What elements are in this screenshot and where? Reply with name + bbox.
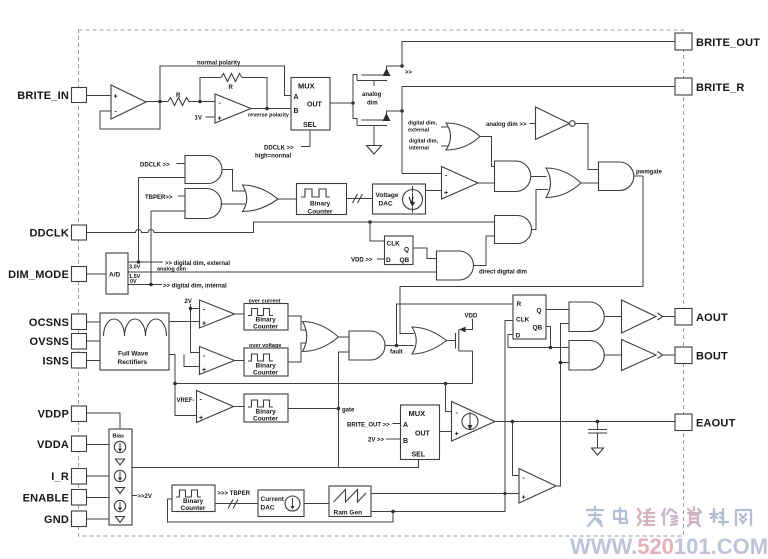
wire FF1 clock tap: [370, 222, 385, 241]
wire counter feedback loop: [168, 499, 394, 522]
comparator U20 over current: [200, 300, 245, 328]
svg-text:>> digital dim, internal: >> digital dim, internal: [163, 284, 227, 290]
svg-text:QB: QB: [400, 257, 410, 264]
svg-text:OCSNS: OCSNS: [29, 317, 69, 329]
net analog dim mid: [129, 274, 141, 280]
svg-text:OUT: OUT: [307, 102, 323, 109]
binary counter U17: [297, 184, 347, 216]
buffer U32 A driver: [622, 300, 676, 333]
wire U13 Q out: [413, 248, 437, 259]
svg-text:QB: QB: [533, 325, 543, 332]
transistor Q2 analog dim low: [353, 92, 402, 126]
svg-text:analog: analog: [362, 92, 382, 98]
svg-text:direct digital dim: direct digital dim: [479, 270, 527, 276]
svg-text:Full Wave: Full Wave: [118, 351, 148, 358]
svg-text:Ram Gen: Ram Gen: [334, 510, 363, 517]
wire PWM comparator out riser: [556, 324, 569, 487]
svg-text:+: +: [202, 321, 206, 328]
svg-text:VDD >>: VDD >>: [351, 258, 373, 264]
net 2V to mux B: [368, 438, 401, 444]
net digital dim external: [128, 260, 230, 270]
wire fault to FF2 reset: [397, 304, 514, 346]
svg-text:analog dim: analog dim: [157, 267, 186, 273]
svg-text:Rectifiers: Rectifiers: [118, 359, 148, 366]
svg-text:BRITE_R: BRITE_R: [696, 82, 744, 94]
and gate U11: [495, 190, 549, 244]
net BRITE_OUT sense: [347, 423, 401, 429]
svg-text:external: external: [408, 128, 430, 134]
svg-text:D: D: [386, 257, 391, 264]
svg-text:TBPER>>: TBPER>>: [145, 195, 173, 201]
net VREF: [177, 398, 195, 404]
and gate U31 B phase: [569, 341, 622, 371]
svg-text:Current: Current: [261, 496, 285, 503]
svg-text:gate: gate: [342, 408, 355, 414]
resistor R2 feedback: [200, 74, 267, 109]
wire U5 out to AND4: [576, 124, 599, 170]
ramp generator U40: [329, 486, 371, 517]
svg-text:digital dim,: digital dim,: [409, 139, 439, 145]
svg-text:Counter: Counter: [181, 505, 206, 512]
net digital dim internal: [128, 279, 227, 290]
or gate U26 gate drive: [412, 327, 456, 354]
svg-text:CLK: CLK: [516, 317, 530, 324]
svg-text:>>: >>: [405, 70, 413, 76]
wire EAOUT to PWM comparator: [513, 422, 520, 476]
comparator U6 analog dim: [442, 167, 495, 200]
wire EAOUT rail: [495, 420, 675, 424]
svg-text:2V >>: 2V >>: [368, 438, 385, 444]
svg-text:3.0V: 3.0V: [129, 265, 141, 271]
svg-text:>> digital dim, external: >> digital dim, external: [165, 261, 230, 267]
wire FF2 Q out: [546, 309, 569, 311]
svg-text:Binary: Binary: [256, 317, 277, 324]
svg-text:+: +: [455, 431, 459, 438]
svg-text:+: +: [199, 415, 203, 422]
comparator U27 VREF: [197, 391, 245, 423]
pin OCSNS: [29, 314, 100, 330]
net TBPER broadcast: [218, 491, 251, 497]
comparator U36 PWM: [519, 469, 556, 504]
node U2 output: [248, 107, 291, 119]
error amp U35: [452, 402, 496, 442]
pin BRITE_IN: [17, 88, 111, 103]
and gate U30 A phase: [569, 302, 622, 332]
binary counter U22 over current: [244, 299, 288, 331]
svg-text:>>> TBPER: >>> TBPER: [218, 491, 251, 497]
svg-text:+: +: [444, 190, 448, 197]
full wave rectifiers U19: [100, 313, 200, 370]
svg-text:DAC: DAC: [261, 505, 275, 512]
svg-text:B: B: [294, 108, 299, 115]
and gate U8: [495, 161, 547, 192]
svg-text:DDCLK >>: DDCLK >>: [264, 146, 294, 152]
svg-text:Counter: Counter: [253, 416, 278, 423]
transistor Q1 analog dim high: [353, 66, 402, 86]
pin BRITE_OUT: [675, 33, 760, 50]
wire U4 out to AND3: [480, 137, 495, 167]
node mux out to dim gates: [330, 74, 355, 119]
svg-text:VREF-: VREF-: [177, 398, 195, 404]
ground below Q2: [367, 126, 382, 155]
svg-text:reverse polarity: reverse polarity: [248, 113, 290, 119]
svg-text:VDD: VDD: [465, 314, 478, 320]
inverter U5 analog dim: [486, 107, 575, 140]
pin OVSNS: [29, 334, 100, 350]
binary counter U38 TBPER: [172, 485, 215, 512]
watermark: [570, 507, 768, 559]
pin DDCLK: [30, 225, 87, 240]
pin VDDA: [37, 436, 109, 452]
svg-text:WWW.520101.COM: WWW.520101.COM: [570, 534, 768, 559]
mux U3 polarity select: [291, 78, 330, 131]
svg-text:R: R: [229, 85, 234, 91]
svg-text:+: +: [522, 495, 526, 502]
net 1V reference: [195, 116, 216, 122]
and gate U15 TBPER: [145, 189, 245, 285]
binary counter U28: [244, 394, 339, 423]
svg-text:I_R: I_R: [51, 471, 69, 483]
wire U22 out: [288, 316, 306, 330]
svg-text:B: B: [403, 438, 408, 445]
pin BRITE_R: [675, 78, 744, 95]
pin DIM_MODE: [8, 267, 106, 282]
svg-text:analog dim >>: analog dim >>: [486, 122, 527, 128]
pin GND: [44, 511, 109, 527]
svg-text:Binary: Binary: [256, 409, 277, 416]
wire error amp inverting feed: [446, 384, 452, 412]
net 2V threshold: [185, 299, 200, 353]
resistor R1: [168, 93, 215, 106]
svg-text:DDCLK: DDCLK: [30, 228, 70, 240]
wire gate net to MUX SEL: [132, 409, 419, 468]
svg-text:ISNS: ISNS: [43, 356, 69, 368]
svg-text:R: R: [517, 301, 522, 308]
svg-text:normal polarity: normal polarity: [197, 61, 241, 67]
svg-text:BRITE_OUT >>: BRITE_OUT >>: [347, 423, 390, 429]
svg-text:+: +: [114, 94, 118, 101]
comparator U21 over voltage: [200, 347, 245, 375]
svg-text:AOUT: AOUT: [696, 312, 728, 324]
capacitor C1: [588, 422, 607, 449]
pin VDDP: [38, 406, 120, 429]
wire mux out: [440, 431, 452, 433]
svg-text:pwmgate: pwmgate: [636, 170, 663, 176]
svg-text:D: D: [516, 333, 521, 340]
svg-text:digital dim,: digital dim,: [408, 121, 438, 127]
svg-text:+: +: [202, 367, 206, 374]
bias block U37: [109, 429, 132, 525]
wire U3 select: [255, 130, 310, 160]
or gate U9: [546, 168, 599, 198]
ground below C1: [592, 448, 604, 455]
svg-text:MUX: MUX: [409, 409, 426, 418]
svg-text:Counter: Counter: [253, 324, 278, 331]
svg-text:MUX: MUX: [298, 82, 315, 91]
node buffer output: [146, 100, 168, 104]
svg-text:0V: 0V: [130, 279, 137, 285]
flip-flop U13: [385, 236, 414, 265]
wire normal polarity: [160, 61, 291, 102]
svg-text:ENABLE: ENABLE: [23, 493, 69, 505]
svg-text:BRITE_OUT: BRITE_OUT: [696, 37, 760, 49]
svg-text:Counter: Counter: [308, 209, 333, 216]
bus slash to current DAC: [215, 500, 258, 509]
svg-text:>>2V: >>2V: [138, 494, 152, 500]
svg-text:DDCLK >>: DDCLK >>: [140, 163, 170, 169]
current DAC U39: [258, 490, 329, 517]
pin ENABLE: [23, 490, 109, 506]
wire U14 out: [222, 170, 245, 192]
a/d converter U18: [106, 253, 128, 294]
svg-text:V: V: [409, 196, 415, 205]
and gate U10 pwmgate: [599, 162, 663, 191]
wire DDCLK rail: [87, 220, 495, 232]
wire BRITE_OUT rail: [400, 42, 675, 77]
svg-text:VDDP: VDDP: [38, 409, 69, 421]
svg-text:+: +: [218, 116, 222, 123]
pin EAOUT: [675, 414, 736, 431]
voltage DAC U7: [373, 184, 442, 214]
wire ramp to FF2 clock: [505, 321, 513, 494]
or gate U4 digital dim combine: [408, 121, 480, 152]
svg-text:GND: GND: [44, 514, 69, 526]
svg-text:OVSNS: OVSNS: [29, 336, 69, 348]
bus slash to voltage DAC: [347, 194, 373, 203]
binary counter U23 over voltage: [244, 343, 288, 377]
svg-text:SEL: SEL: [412, 452, 426, 459]
mux U34 error amp source: [401, 405, 440, 460]
wire ramp rail: [371, 492, 519, 495]
svg-text:EAOUT: EAOUT: [696, 418, 736, 430]
flip-flop U29 phase splitter: [513, 295, 546, 340]
svg-text:OUT: OUT: [415, 431, 431, 438]
transistor Q3 fault pull: [456, 314, 478, 384]
svg-text:A: A: [294, 94, 299, 101]
pin BOUT: [675, 347, 728, 364]
svg-text:A/D: A/D: [109, 272, 121, 279]
svg-text:Counter: Counter: [253, 370, 278, 377]
op-amp U1 input buffer: [100, 85, 160, 129]
pin I_R: [51, 469, 109, 485]
svg-text:Binary: Binary: [256, 363, 277, 370]
op-amp U2 inverting: [215, 94, 251, 123]
svg-text:A: A: [403, 422, 408, 429]
and gate U14 DDCLK: [139, 156, 223, 263]
net 2V bias out: [132, 494, 152, 500]
svg-text:Voltage: Voltage: [376, 192, 399, 199]
svg-text:Q: Q: [537, 308, 542, 315]
svg-text:Binary: Binary: [183, 498, 204, 505]
wire pwmgate return path: [400, 176, 643, 334]
svg-text:dim: dim: [367, 101, 378, 107]
buffer U33 B driver: [622, 340, 676, 371]
pin AOUT: [675, 309, 728, 326]
svg-text:high=normal: high=normal: [255, 154, 292, 160]
wire BRITE_R sense drop to comparator: [402, 111, 442, 174]
wire ISNS full-wave rail: [169, 355, 473, 416]
svg-text:1V: 1V: [195, 116, 202, 122]
svg-text:VDDA: VDDA: [37, 439, 69, 451]
or gate U24 fault combine: [303, 322, 350, 352]
wire BRITE_R rail: [400, 87, 675, 113]
wire ramp lower rail: [371, 494, 505, 514]
wire gate net to fault AND: [337, 352, 355, 414]
net VDD to D: [351, 258, 385, 264]
svg-text:SEL: SEL: [303, 122, 317, 129]
svg-text:R: R: [176, 93, 181, 99]
wire analog dim level rail: [128, 267, 437, 273]
svg-text:fault: fault: [390, 350, 403, 356]
svg-text:DAC: DAC: [379, 201, 393, 208]
wire FF2 QB loop: [508, 327, 569, 350]
svg-text:BOUT: BOUT: [696, 351, 728, 363]
svg-text:Binary: Binary: [310, 201, 331, 208]
svg-text:Q: Q: [404, 247, 409, 254]
pin ISNS: [43, 353, 100, 369]
svg-text:DIM_MODE: DIM_MODE: [8, 269, 69, 281]
wire U23 out: [288, 343, 306, 362]
svg-text:CLK: CLK: [387, 241, 401, 248]
svg-text:internal: internal: [409, 146, 429, 152]
and gate U12: [437, 236, 528, 280]
svg-text:BRITE_IN: BRITE_IN: [17, 90, 69, 102]
or gate U16: [243, 185, 297, 212]
and gate U25 fault qualify: [349, 331, 414, 360]
svg-text:Bias: Bias: [113, 434, 125, 440]
